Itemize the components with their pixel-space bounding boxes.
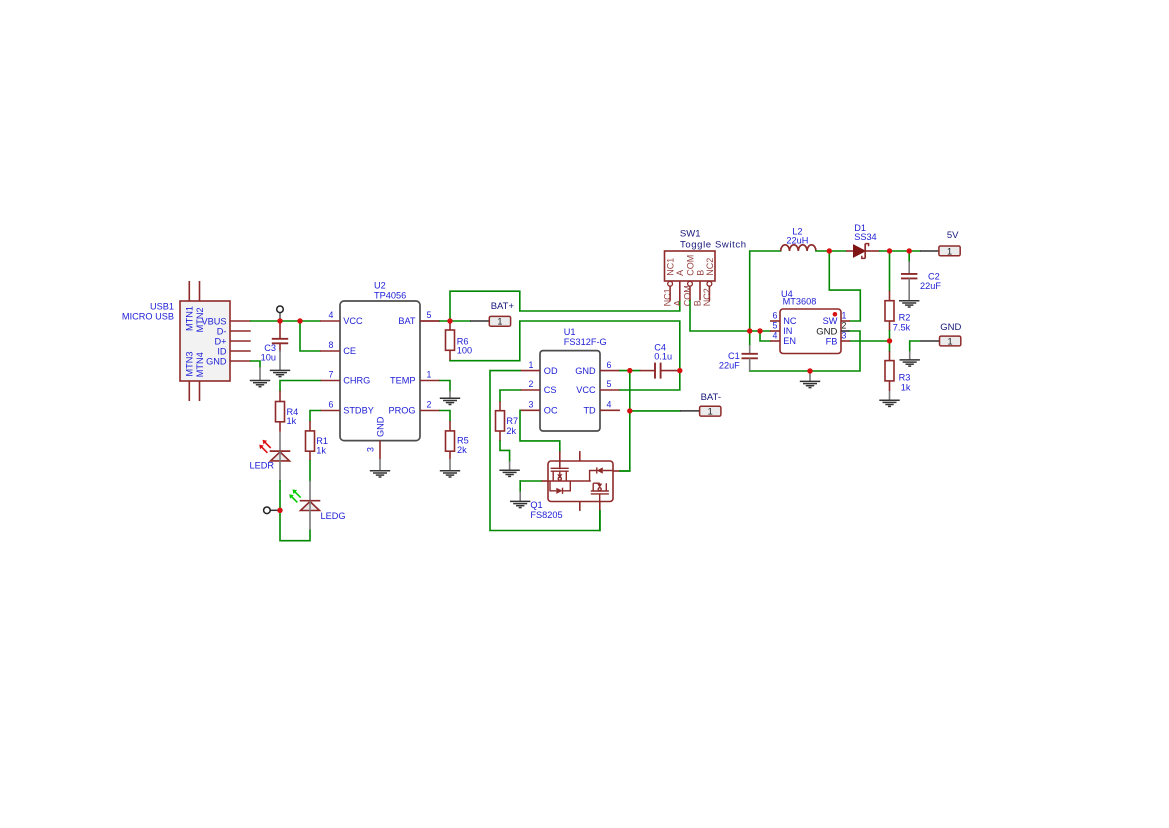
svg-text:CS: CS — [544, 385, 557, 395]
svg-text:1: 1 — [529, 360, 534, 370]
svg-text:R7: R7 — [506, 416, 518, 426]
svg-text:1k: 1k — [287, 416, 297, 426]
svg-text:2k: 2k — [457, 445, 467, 455]
svg-text:COM: COM — [683, 285, 693, 306]
svg-text:FB: FB — [826, 336, 838, 346]
svg-text:D-: D- — [217, 326, 227, 336]
svg-text:NC2: NC2 — [705, 258, 715, 276]
svg-text:U1: U1 — [564, 327, 576, 337]
svg-text:2: 2 — [842, 320, 847, 330]
svg-text:R3: R3 — [899, 373, 911, 383]
svg-text:SW1: SW1 — [680, 229, 701, 240]
svg-text:MTN1: MTN1 — [185, 306, 195, 331]
svg-text:NC2: NC2 — [702, 288, 712, 306]
svg-text:BAT: BAT — [398, 316, 416, 326]
svg-text:PROG: PROG — [388, 406, 415, 416]
svg-text:GND: GND — [575, 366, 596, 376]
svg-text:1k: 1k — [316, 446, 326, 456]
svg-text:6: 6 — [329, 400, 334, 410]
svg-text:0.1u: 0.1u — [654, 352, 672, 362]
svg-text:TD: TD — [583, 406, 596, 416]
svg-text:NC: NC — [783, 316, 797, 326]
svg-text:GND: GND — [375, 416, 385, 437]
svg-text:8: 8 — [329, 340, 334, 350]
svg-text:COM: COM — [685, 255, 695, 276]
svg-text:VBUS: VBUS — [201, 316, 226, 326]
svg-text:Toggle Switch: Toggle Switch — [680, 239, 747, 250]
svg-text:STDBY: STDBY — [343, 406, 374, 416]
svg-text:1: 1 — [842, 310, 847, 320]
svg-text:C3: C3 — [264, 343, 276, 353]
svg-text:TEMP: TEMP — [390, 376, 416, 386]
svg-text:Q1: Q1 — [530, 500, 542, 510]
svg-text:R2: R2 — [899, 313, 911, 323]
svg-text:1: 1 — [708, 407, 713, 417]
svg-text:1: 1 — [427, 370, 432, 380]
svg-text:USB1: USB1 — [150, 301, 174, 311]
svg-text:5: 5 — [607, 379, 612, 389]
svg-text:6: 6 — [607, 360, 612, 370]
svg-text:U2: U2 — [374, 281, 386, 291]
svg-text:FS312F-G: FS312F-G — [564, 337, 607, 347]
svg-text:5: 5 — [427, 310, 432, 320]
svg-text:NC1: NC1 — [666, 258, 676, 276]
svg-text:BAT+: BAT+ — [491, 301, 515, 312]
svg-text:2: 2 — [529, 379, 534, 389]
svg-text:2: 2 — [427, 400, 432, 410]
svg-text:5V: 5V — [947, 230, 959, 241]
svg-text:MT3608: MT3608 — [783, 297, 817, 307]
svg-text:100: 100 — [457, 346, 472, 356]
svg-text:MICRO USB: MICRO USB — [122, 312, 174, 322]
svg-text:VCC: VCC — [576, 385, 596, 395]
svg-text:FS8205: FS8205 — [530, 510, 562, 520]
svg-text:A: A — [672, 300, 682, 306]
svg-text:10u: 10u — [261, 353, 276, 363]
svg-text:MTN3: MTN3 — [185, 351, 195, 376]
svg-text:A: A — [675, 270, 685, 276]
svg-text:5: 5 — [773, 320, 778, 330]
svg-text:GND: GND — [940, 322, 961, 333]
svg-text:R1: R1 — [316, 436, 328, 446]
svg-text:1: 1 — [948, 336, 953, 346]
svg-text:1k: 1k — [901, 383, 911, 393]
svg-text:3: 3 — [529, 400, 534, 410]
svg-text:7.5k: 7.5k — [893, 323, 911, 333]
svg-text:SW: SW — [823, 316, 838, 326]
svg-text:OC: OC — [544, 406, 558, 416]
svg-text:OD: OD — [544, 366, 558, 376]
svg-text:ID: ID — [217, 346, 227, 356]
svg-text:CHRG: CHRG — [343, 376, 370, 386]
svg-text:D+: D+ — [214, 336, 226, 346]
svg-text:SS34: SS34 — [854, 232, 876, 242]
svg-text:22uH: 22uH — [786, 236, 808, 246]
svg-text:3: 3 — [366, 447, 376, 452]
svg-text:3: 3 — [842, 330, 847, 340]
svg-text:GND: GND — [206, 356, 227, 366]
svg-text:TP4056: TP4056 — [374, 291, 406, 301]
svg-text:CE: CE — [343, 346, 356, 356]
svg-text:IN: IN — [783, 326, 792, 336]
svg-text:VCC: VCC — [343, 316, 363, 326]
svg-text:4: 4 — [773, 330, 778, 340]
svg-text:22uF: 22uF — [719, 361, 740, 371]
svg-text:7: 7 — [329, 370, 334, 380]
svg-text:22uF: 22uF — [920, 281, 941, 291]
svg-text:4: 4 — [607, 400, 612, 410]
svg-text:1: 1 — [497, 317, 502, 327]
svg-text:NC1: NC1 — [663, 288, 673, 306]
svg-text:LEDR: LEDR — [249, 461, 274, 471]
svg-text:LEDG: LEDG — [321, 511, 346, 521]
svg-text:2k: 2k — [506, 426, 516, 436]
svg-text:1: 1 — [947, 246, 952, 256]
svg-text:6: 6 — [773, 310, 778, 320]
svg-text:BAT-: BAT- — [701, 392, 721, 403]
svg-text:EN: EN — [783, 336, 796, 346]
svg-text:4: 4 — [329, 310, 334, 320]
svg-text:MTN4: MTN4 — [195, 352, 205, 377]
